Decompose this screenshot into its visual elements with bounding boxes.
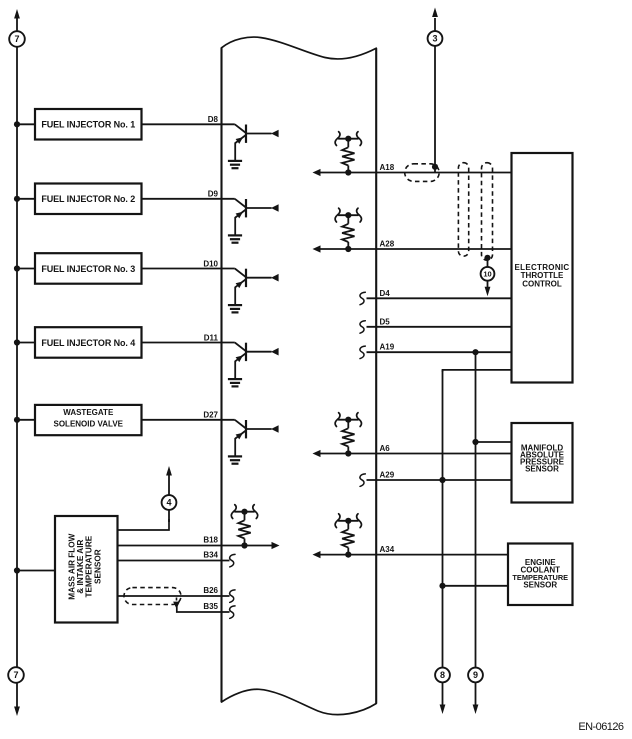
wire pin B26: [118, 595, 230, 597]
wire ETC lower stub to vertical net 8: [443, 370, 512, 372]
junction bus/wastegate: [14, 417, 20, 423]
ECM band left edge: [220, 48, 222, 702]
svg-text:B18: B18: [203, 536, 218, 545]
break at B34 end: [230, 554, 235, 567]
arrow down net 8: [440, 705, 446, 715]
svg-text:D8: D8: [208, 115, 219, 124]
svg-text:4: 4: [166, 498, 171, 508]
svg-text:A6: A6: [380, 444, 391, 453]
svg-text:FUEL INJECTOR No. 4: FUEL INJECTOR No. 4: [41, 338, 135, 348]
manifold absolute pressure sensor box: [512, 423, 573, 503]
fuel injector no.3 box: [35, 253, 142, 284]
wire pin B34: [118, 560, 230, 562]
wire FUEL INJECTOR No. 1 to ECM pin D8: [142, 123, 235, 125]
fuel injector no.4 box: [35, 327, 142, 358]
svg-text:A29: A29: [380, 471, 395, 480]
wire bus to FUEL INJECTOR No. 3: [17, 268, 35, 270]
wire pin A18 with left arrow: [313, 169, 321, 176]
wire pin B35: [177, 606, 230, 612]
arrow down from node 10: [487, 281, 489, 288]
shielded twisted pair loop (right): [482, 163, 493, 261]
ground of Q1 (injector 1 driver): [228, 161, 242, 168]
svg-text:& INTAKE AIR: & INTAKE AIR: [76, 540, 85, 594]
svg-text:EN-06126: EN-06126: [578, 721, 624, 733]
shield drop B26 to B35 (dashed): [176, 598, 178, 603]
connector circle 7 (bottom): [8, 667, 24, 683]
junction bus/injector2: [14, 196, 20, 202]
svg-text:7: 7: [14, 34, 19, 44]
junction dot net8/ECT stub: [439, 583, 445, 589]
svg-text:D11: D11: [204, 333, 219, 342]
vertical wire net 9: [475, 352, 477, 706]
svg-text:FUEL INJECTOR No. 2: FUEL INJECTOR No. 2: [41, 194, 135, 204]
fuel injector no.2 box: [35, 184, 142, 215]
svg-text:B26: B26: [203, 586, 218, 595]
wire MAP sensor upper stub: [476, 441, 512, 443]
junction dot net8/A29: [439, 477, 445, 483]
arrowhead on shield drop: [173, 602, 180, 609]
wastegate solenoid valve box: [35, 405, 142, 435]
break at B26 end: [230, 590, 235, 603]
junction dot net9/MAP stub: [472, 439, 478, 445]
vertical wire net 8: [442, 370, 444, 707]
pull-up resistor on B18: [241, 542, 247, 548]
ECM band right edge: [375, 48, 377, 703]
in-line connector (dashed) on B26: [124, 588, 181, 605]
transistor Q5 (wastegate driver): [235, 420, 279, 457]
svg-text:D4: D4: [380, 289, 391, 298]
transistor Q2 (injector 2 driver): [235, 199, 279, 236]
svg-text:SENSOR: SENSOR: [523, 580, 557, 589]
wire riser to node 3: [434, 18, 436, 173]
connector circle 7 (top): [9, 31, 25, 47]
break at B35 end: [230, 606, 235, 619]
wire FUEL INJECTOR No. 2 to ECM pin D9: [142, 198, 235, 200]
wire FUEL INJECTOR No. 4 to ECM pin D11: [142, 342, 235, 344]
ground of Q3 (injector 3 driver): [228, 305, 242, 312]
junction dot net9/A19: [472, 349, 478, 355]
svg-text:A18: A18: [380, 163, 395, 172]
transistor Q4 (injector 4 driver): [235, 343, 279, 380]
wire pin A6 with left arrow: [313, 450, 321, 457]
wire pin A29 with break: [360, 474, 365, 487]
wire pin A28 with left arrow: [313, 245, 321, 252]
wire MAF to node 4 riser: [118, 519, 170, 530]
wire bus to FUEL INJECTOR No. 1: [17, 123, 35, 125]
connector circle 9: [468, 668, 483, 683]
pull-up resistor on A18: [345, 169, 351, 175]
electronic throttle control box: [512, 153, 573, 383]
ECM band torn top edge: [222, 37, 377, 59]
svg-text:9: 9: [473, 670, 478, 680]
wire bus to MAF sensor: [17, 570, 55, 572]
junction dot on A18 riser: [432, 164, 438, 170]
wire shield drain to node 10: [487, 258, 489, 267]
junction bus/MAF: [14, 567, 20, 573]
wire wastegate valve to ECM pin D27: [142, 419, 235, 421]
wire bus to FUEL INJECTOR No. 4: [17, 342, 35, 344]
wire pin A19 with break: [360, 346, 365, 359]
svg-text:D5: D5: [380, 317, 391, 326]
junction dot of shield drain: [484, 255, 490, 261]
connector circle 10: [481, 267, 495, 281]
ECM band torn bottom edge: [222, 689, 377, 714]
junction bus/injector4: [14, 339, 20, 345]
arrow down (bottom of bus): [14, 707, 20, 717]
ground of Q4 (injector 4 driver): [228, 379, 242, 386]
wire bus to wastegate valve: [17, 419, 35, 421]
wire FUEL INJECTOR No. 3 to ECM pin D10: [142, 268, 235, 270]
svg-text:CONTROL: CONTROL: [522, 279, 562, 288]
arrow right at B18 end: [272, 542, 280, 549]
wire bus to FUEL INJECTOR No. 2: [17, 198, 35, 200]
svg-text:A34: A34: [380, 545, 395, 554]
arrow up to node 3: [432, 8, 438, 18]
svg-text:FUEL INJECTOR No. 1: FUEL INJECTOR No. 1: [41, 120, 135, 130]
svg-text:10: 10: [483, 270, 491, 279]
pull-up resistor on A6: [345, 450, 351, 456]
engine coolant temperature sensor box: [508, 544, 573, 606]
svg-text:D10: D10: [203, 259, 218, 268]
connector circle 8: [435, 668, 450, 683]
svg-text:SOLENOID VALVE: SOLENOID VALVE: [54, 419, 124, 428]
ground of Q2 (injector 2 driver): [228, 235, 242, 242]
in-line connector (dashed) on A18: [405, 164, 440, 182]
svg-text:FUEL INJECTOR No. 3: FUEL INJECTOR No. 3: [41, 264, 135, 274]
svg-text:8: 8: [440, 670, 445, 680]
wire ECT sensor lower stub: [443, 585, 509, 587]
ground of Q5 (wastegate driver): [228, 456, 242, 463]
mass air flow & intake air temperature sensor box: [55, 516, 118, 623]
junction bus/injector3: [14, 265, 20, 271]
svg-text:D27: D27: [203, 411, 218, 420]
svg-text:SENSOR: SENSOR: [93, 549, 102, 584]
pull-up resistor on A28: [345, 246, 351, 252]
svg-text:WASTEGATE: WASTEGATE: [63, 408, 114, 417]
svg-text:A28: A28: [380, 240, 395, 249]
shielded twisted pair loop (left): [458, 163, 468, 257]
svg-text:3: 3: [432, 34, 437, 44]
wire pin B18: [118, 545, 272, 547]
svg-text:A19: A19: [380, 343, 395, 352]
transistor Q3 (injector 3 driver): [235, 269, 279, 306]
connector circle 4: [162, 495, 177, 510]
arrow up to node 4: [166, 466, 172, 476]
svg-text:TEMPERATURE: TEMPERATURE: [85, 535, 94, 597]
svg-text:7: 7: [13, 670, 18, 680]
arrow up to circled 7 (top): [14, 9, 20, 19]
wire pin D4 with break: [360, 292, 365, 305]
left power bus (net 7): [16, 18, 18, 707]
junction bus/injector1: [14, 121, 20, 127]
transistor Q1 (injector 1 driver): [235, 124, 279, 161]
fuel injector no.1 box: [35, 109, 142, 140]
svg-text:SENSOR: SENSOR: [525, 465, 559, 474]
pull-up resistor on A34: [345, 552, 351, 558]
svg-text:D9: D9: [208, 190, 219, 199]
connector circle 3: [428, 31, 443, 46]
svg-text:B34: B34: [203, 551, 218, 560]
wire pin A34 with left arrow: [313, 551, 321, 558]
arrow down net 9: [473, 705, 479, 715]
wire pin D5 with break: [360, 321, 365, 334]
svg-text:B35: B35: [203, 602, 218, 611]
